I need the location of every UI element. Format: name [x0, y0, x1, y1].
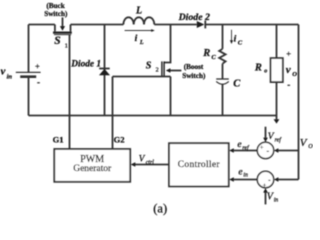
svg-text:e: e: [238, 168, 242, 178]
svg-text:Diode 2: Diode 2: [178, 12, 210, 23]
svg-text:+: +: [35, 61, 40, 71]
buck switch pointer line: [62, 17, 64, 26]
svg-text:Switch): Switch): [44, 10, 68, 18]
boost switch arrowhead: [166, 68, 171, 73]
wire top-left segment: [29, 24, 55, 26]
wire e_in: [234, 179, 258, 181]
bottom rail: [29, 115, 277, 117]
i_L arrowhead: [151, 29, 155, 32]
V_O bottom stub arrowhead: [274, 177, 279, 182]
diode D1 triangle: [99, 69, 110, 75]
transistor S1 stubs: [55, 25, 71, 32]
V_ctrl arrowhead: [131, 162, 136, 167]
resistor R_o bottom wire: [276, 82, 278, 115]
wire V_ref input: [265, 127, 267, 138]
svg-text:R: R: [254, 63, 262, 74]
svg-text:C: C: [211, 54, 216, 61]
capacitor C top wire: [222, 64, 224, 79]
svg-text:e: e: [237, 140, 241, 150]
svg-text:V: V: [300, 137, 308, 149]
resistor R_o branch top wire: [276, 25, 278, 59]
svg-text:in: in: [7, 74, 13, 81]
i_C arrowhead: [230, 40, 233, 44]
svg-text:L: L: [139, 40, 144, 46]
left rail: [28, 25, 30, 73]
svg-text:S: S: [54, 35, 60, 47]
capacitor C curved plate: [216, 81, 229, 84]
svg-text:in: in: [274, 198, 279, 204]
svg-text:R: R: [202, 48, 210, 59]
svg-text:2: 2: [156, 67, 159, 73]
battery bottom wire: [28, 77, 30, 116]
summing junction top circle: [257, 142, 273, 158]
wire rail to V_ref arrow: [276, 116, 278, 120]
svg-text:+: +: [260, 145, 264, 152]
V_O top stub arrowhead: [274, 148, 279, 153]
wire V_ctrl: [135, 164, 169, 166]
wire V_in input: [265, 193, 267, 205]
e_in arrowhead: [229, 177, 234, 182]
resistor R_C zigzag: [219, 49, 225, 64]
svg-text:+: +: [263, 182, 267, 189]
wire G1: [69, 35, 71, 149]
diode D2 cathode bar: [204, 21, 206, 29]
svg-text:1: 1: [65, 43, 68, 50]
svg-text:v: v: [286, 64, 291, 76]
svg-text:i: i: [135, 34, 138, 44]
capacitor C bottom wire: [222, 84, 224, 115]
svg-text:G2: G2: [114, 135, 125, 145]
svg-text:G1: G1: [53, 135, 64, 145]
transistor S2 gate bar: [161, 61, 163, 76]
svg-text:V: V: [139, 154, 146, 164]
resistor R_C branch top wire: [222, 25, 224, 49]
svg-text:C: C: [238, 39, 243, 46]
boost switch pointer line: [170, 70, 182, 72]
svg-text:ctrl: ctrl: [146, 160, 154, 166]
svg-text:Switch): Switch): [182, 72, 206, 80]
diode D1 branch wire: [104, 25, 106, 116]
wire e_ref: [234, 150, 258, 152]
transistor S2 drain wire: [164, 25, 171, 63]
svg-text:(Boost: (Boost: [184, 63, 204, 71]
diode D2 triangle: [197, 21, 205, 28]
PWM generator box: [54, 149, 130, 182]
svg-text:S: S: [146, 61, 152, 72]
resistor R_o box: [271, 58, 283, 82]
svg-text:(Buck: (Buck: [46, 2, 64, 10]
svg-text:Generator: Generator: [73, 164, 112, 174]
buck switch arrowhead: [60, 26, 65, 31]
svg-text:C: C: [233, 79, 241, 90]
right rail V_O sense: [298, 25, 300, 180]
svg-text:o: o: [264, 68, 267, 74]
svg-text:ref: ref: [275, 136, 283, 143]
svg-text:-: -: [287, 80, 290, 90]
V_O down arrowhead: [274, 119, 280, 123]
svg-text:Diode 1: Diode 1: [70, 60, 101, 70]
current arrow i_C line: [231, 30, 233, 41]
diode D1 cathode bar: [99, 68, 110, 70]
svg-text:O: O: [292, 71, 297, 78]
svg-text:v: v: [1, 66, 6, 78]
svg-text:i: i: [234, 35, 237, 45]
svg-text:L: L: [135, 6, 142, 17]
controller box: [169, 143, 229, 186]
svg-text:-: -: [37, 77, 40, 87]
inductor L coil: [123, 17, 154, 24]
svg-text:in: in: [243, 173, 248, 179]
V_ref arrowhead: [263, 138, 268, 143]
capacitor C straight plate: [216, 78, 229, 80]
summing junction bottom circle: [257, 171, 273, 187]
wire diode2 to right corner: [205, 24, 298, 26]
svg-text:(a): (a): [153, 202, 167, 216]
wire V_O to top summer: [278, 150, 298, 152]
e_ref arrowhead: [229, 148, 234, 153]
wire inductor to diode2: [154, 24, 197, 26]
svg-text:Controller: Controller: [178, 160, 221, 170]
V_in arrowhead: [263, 188, 268, 193]
transistor S1 gate bar: [54, 34, 71, 36]
wire G2 and S2 source: [113, 77, 171, 150]
svg-text:O: O: [308, 143, 313, 150]
svg-text:+: +: [286, 49, 291, 59]
battery v_in plates: [16, 71, 41, 73]
transistor S1 channel bar: [53, 31, 72, 33]
wire V_O to bottom summer: [278, 179, 298, 181]
current arrow i_L line: [125, 30, 152, 32]
transistor S2 channel bar: [163, 61, 165, 76]
wire top mid segment: [71, 24, 124, 26]
